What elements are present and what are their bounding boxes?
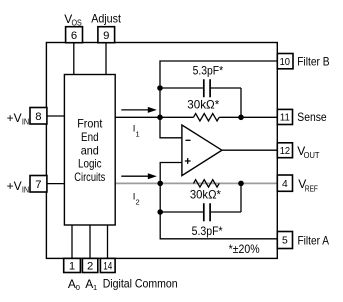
svg-text:REF: REF <box>305 184 318 194</box>
wire pin 14 from front end <box>107 225 109 258</box>
junction dot node A top <box>157 115 163 121</box>
svg-text:Filter B: Filter B <box>297 54 329 68</box>
gray wire VREF net (front end to pin 4) <box>115 182 277 184</box>
op-amp plus sign <box>185 158 191 164</box>
pin 11 box <box>277 109 292 124</box>
op-amp U1 triangle <box>182 125 222 176</box>
pin 6 box <box>66 27 83 43</box>
resistor R2 30k zigzag bottom <box>194 180 220 187</box>
wire I1 row front end to node A <box>115 116 193 118</box>
pin 5 box <box>277 232 292 249</box>
svg-text:Digital Common: Digital Common <box>103 277 178 291</box>
I2 current arrow <box>121 175 149 177</box>
junction dot node B sense row <box>238 115 244 121</box>
junction dot node D gray row left <box>157 181 163 187</box>
svg-text:2: 2 <box>87 261 93 273</box>
wire op-amp output to pin 12 <box>222 149 277 151</box>
svg-text:1: 1 <box>136 130 140 139</box>
svg-text:4: 4 <box>282 179 288 190</box>
svg-text:30kΩ*: 30kΩ* <box>187 98 219 112</box>
svg-text:8: 8 <box>35 111 41 123</box>
pin 8 box <box>30 108 47 125</box>
svg-text:6: 6 <box>71 30 77 42</box>
svg-text:Filter A: Filter A <box>298 233 330 247</box>
svg-text:and: and <box>81 143 99 157</box>
capacitor C2 leads bottom <box>160 211 241 213</box>
svg-text:9: 9 <box>103 30 109 42</box>
svg-text:IN: IN <box>22 185 29 195</box>
pin 14 box <box>100 258 115 272</box>
svg-text:*±20%: *±20% <box>229 242 260 256</box>
resistor R1 30k zigzag top <box>194 114 220 121</box>
wire pin 6 to front end <box>73 43 75 75</box>
svg-text:2: 2 <box>136 198 140 207</box>
svg-text:1: 1 <box>69 261 75 273</box>
svg-text:1: 1 <box>93 283 97 292</box>
svg-text:11: 11 <box>280 113 290 124</box>
wire pin 2 from front end <box>89 225 91 258</box>
svg-text:Sense: Sense <box>297 110 327 124</box>
wire vertical node B (cap to sense row) <box>240 88 242 117</box>
svg-text:12: 12 <box>280 146 291 157</box>
svg-text:0: 0 <box>76 283 80 292</box>
svg-text:7: 7 <box>35 179 41 191</box>
svg-text:Front: Front <box>77 117 103 131</box>
capacitor C1 leads top <box>160 87 241 89</box>
junction dot cap C1 left <box>157 85 163 91</box>
wire plus input with left vertical and pin 5 row <box>160 163 277 239</box>
svg-text:+V: +V <box>7 111 22 125</box>
wire pin 7 to front end <box>46 183 64 185</box>
op-amp minus sign <box>186 139 191 141</box>
svg-text:Logic: Logic <box>78 157 102 171</box>
pin 4 box <box>277 175 292 191</box>
svg-text:+V: +V <box>7 179 22 193</box>
wire pin 9 to front end <box>105 43 107 75</box>
svg-text:5.3pF*: 5.3pF* <box>193 64 224 78</box>
pin 7 box <box>30 176 47 193</box>
svg-text:End: End <box>81 130 99 144</box>
pin 2 box <box>82 258 97 272</box>
capacitor C2 plates <box>204 203 210 221</box>
svg-text:Adjust: Adjust <box>91 12 121 26</box>
svg-text:OUT: OUT <box>304 150 320 160</box>
svg-text:10: 10 <box>280 57 291 68</box>
wire vertical node C (resistor row to cap row bottom) <box>240 183 242 212</box>
pin 1 box <box>64 258 81 272</box>
pin 9 box <box>98 27 115 43</box>
svg-text:Circuits: Circuits <box>74 170 105 184</box>
svg-text:IN: IN <box>22 117 29 127</box>
wire Filter B row with left vertical and minus input <box>160 61 277 138</box>
wire I1 row node B to pin 11 <box>219 116 277 118</box>
junction dot node C gray row right <box>238 181 244 187</box>
capacitor C1 plates <box>204 79 210 97</box>
svg-text:5: 5 <box>282 236 288 247</box>
junction dot cap C2 left <box>157 209 163 215</box>
front end block <box>64 75 115 226</box>
svg-text:14: 14 <box>103 261 112 273</box>
pin 12 box <box>277 143 292 158</box>
svg-text:30kΩ*: 30kΩ* <box>190 187 221 201</box>
pin 10 box <box>277 54 293 69</box>
svg-text:5.3pF*: 5.3pF* <box>192 224 223 238</box>
svg-text:OS: OS <box>72 18 83 28</box>
wire pin 8 to front end <box>46 115 64 117</box>
wire pin 1 from front end <box>71 225 73 258</box>
I1 current arrow <box>121 109 149 111</box>
IC package outline <box>46 43 277 259</box>
